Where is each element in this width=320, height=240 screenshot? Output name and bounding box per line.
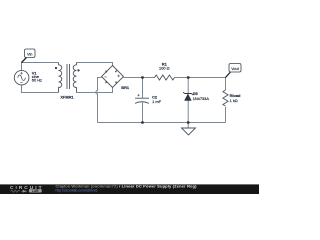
wire: bridge positive output along top rail to R1 [124, 77, 156, 79]
transformer XFMR1 [59, 63, 77, 93]
wire: V1 top lead and top-left rail to XFMR1 primary [22, 63, 59, 71]
resistor Rload [223, 90, 228, 106]
node junction at D5 top [187, 76, 190, 79]
svg-text:LAB: LAB [32, 189, 39, 193]
wire: XFMR1 secondary bottom rail to bridge bottom corner [77, 88, 113, 93]
svg-text:60 Hz: 60 Hz [32, 78, 42, 83]
footer bar [0, 184, 259, 194]
phase dot primary [55, 67, 57, 69]
svg-text:100 Ω: 100 Ω [159, 65, 170, 70]
wire: C2 bottom lead [142, 103, 144, 123]
wire: C2 top tap [142, 78, 144, 99]
capacitor C2 [135, 94, 149, 103]
node junction at C2 top [141, 76, 144, 79]
voltage source V1 [14, 70, 29, 85]
wire: bridge negative output down to bottom rail (with hop over AC wire) [96, 78, 102, 123]
svg-text:Vin: Vin [27, 53, 32, 57]
svg-text:1 mF: 1 mF [152, 99, 161, 104]
wire: V1 bottom lead and bottom-left rail to XFMR1 primary [22, 85, 59, 92]
wire: Rload bottom lead [225, 107, 227, 123]
R1 labels [159, 61, 170, 70]
footer CircuitLab logo [10, 185, 42, 193]
node flag Vout [226, 64, 242, 78]
bridge rectifier BR1 [102, 66, 124, 88]
zener diode D5 [183, 92, 193, 101]
node junction at C2 bottom [141, 121, 144, 124]
diode glyph upper-right edge [115, 70, 117, 73]
wire: D5 top tap [187, 78, 189, 94]
svg-text:BR1: BR1 [121, 85, 130, 90]
diode glyph lower-left edge [105, 81, 107, 84]
diode glyph lower-right edge [115, 81, 117, 84]
primary winding [59, 63, 62, 93]
wire: bottom rail from bridge negative to Rload [98, 122, 226, 124]
phase dot secondary [77, 69, 79, 71]
Rload labels [230, 93, 241, 103]
svg-text:XFMR1: XFMR1 [60, 95, 74, 100]
svg-text:http://circuitlab.com/c6fwrx6: http://circuitlab.com/c6fwrx6 [56, 189, 98, 193]
core [67, 64, 70, 89]
node junction at ground [187, 121, 190, 124]
wire: XFMR1 secondary top rail to bridge top corner [77, 63, 113, 66]
resistor R1 [155, 75, 175, 80]
ground [182, 128, 196, 135]
plus mark near positive corner [117, 75, 120, 78]
wire: Rload top lead [225, 78, 227, 91]
V1 value labels [32, 70, 42, 82]
minus mark near negative corner [104, 76, 107, 78]
wire: D5 bottom lead [187, 101, 189, 123]
wire: ground stub [187, 123, 189, 129]
C2 labels [152, 94, 161, 104]
diode glyph upper-left edge [105, 70, 107, 73]
svg-text:Vout: Vout [231, 67, 240, 71]
D5 labels [193, 91, 210, 101]
wire: R1 right side of top rail to Rload corner [175, 77, 226, 79]
node flag Vin [22, 49, 36, 63]
secondary winding [73, 63, 76, 93]
svg-text:1N4733A: 1N4733A [193, 96, 210, 101]
svg-text:1 kΩ: 1 kΩ [230, 98, 238, 103]
